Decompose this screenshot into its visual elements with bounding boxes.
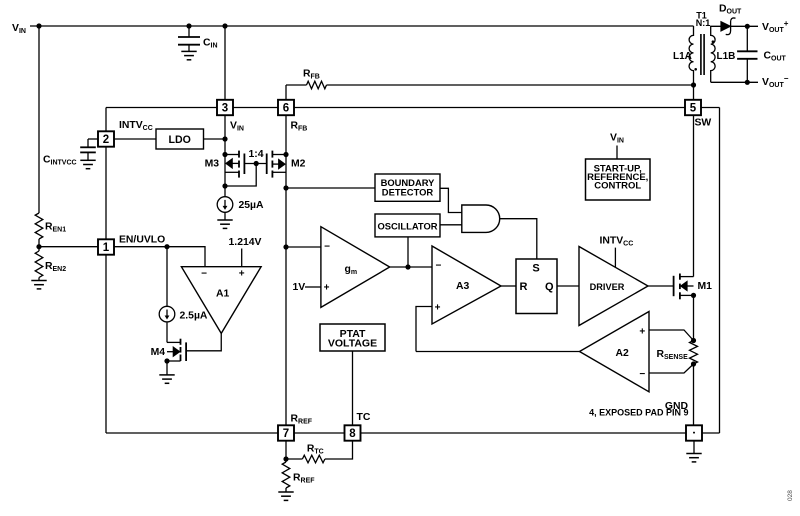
wire INTVCC into driver bbox=[614, 248, 616, 268]
svg-text:−: − bbox=[324, 241, 330, 252]
IC boundary right edge bbox=[719, 108, 721, 434]
junction VOUT+ bbox=[745, 24, 750, 29]
op-amp A3 bbox=[432, 246, 501, 324]
svg-text:M3: M3 bbox=[205, 159, 220, 170]
junction mirror gate tie bbox=[222, 183, 227, 188]
AND gate U1 bbox=[462, 205, 500, 232]
ground CINTVCC bbox=[80, 160, 95, 168]
svg-text:028: 028 bbox=[787, 490, 794, 501]
wire SW rail pin5 to M1 bbox=[693, 115, 695, 276]
ground REN2 bbox=[31, 281, 46, 289]
wire pin3 from top rail bbox=[224, 26, 226, 100]
junction 2.5uA tap bbox=[164, 244, 169, 249]
wire oscillator to AND gate bbox=[440, 224, 462, 226]
junction gm output bbox=[405, 264, 410, 269]
junction top-rail pin3 bbox=[222, 23, 227, 28]
junction top-rail left bbox=[36, 23, 41, 28]
svg-text:A2: A2 bbox=[616, 348, 630, 359]
svg-text:TC: TC bbox=[357, 412, 371, 423]
op-amp A1 bbox=[181, 267, 261, 334]
wire M2 rail pin6 to pin7 bbox=[285, 115, 287, 425]
wire mirror gates tie 1:4 bbox=[244, 163, 266, 165]
pin 4 GND exposed pad bbox=[686, 425, 702, 440]
svg-text:8: 8 bbox=[349, 428, 356, 440]
svg-text:4, EXPOSED PAD PIN 9: 4, EXPOSED PAD PIN 9 bbox=[589, 408, 688, 418]
wire pin2 to LDO bbox=[114, 138, 156, 140]
wire left VIN rail down to REN1 bbox=[38, 26, 40, 213]
IC boundary top edge bbox=[106, 107, 217, 109]
wire A2 inverting input to RSENSE bottom bbox=[649, 364, 694, 373]
svg-text:2: 2 bbox=[103, 134, 109, 146]
junction M2 drain bbox=[283, 152, 288, 157]
junction boundary detector tap bbox=[283, 185, 288, 190]
resistor RTC bbox=[286, 458, 302, 460]
wire AND output to latch S input bbox=[500, 219, 537, 259]
transistor M1 bbox=[680, 276, 694, 278]
capacitor COUT bbox=[746, 26, 748, 51]
junction RSENSE bottom bbox=[691, 361, 696, 366]
wire driver output to M1 gate bbox=[648, 285, 674, 287]
svg-text:−: − bbox=[201, 268, 207, 279]
svg-text:EN/UVLO: EN/UVLO bbox=[119, 235, 165, 246]
wire latch Q to driver bbox=[557, 285, 579, 287]
wire gm inverting input bbox=[286, 246, 321, 248]
box PTAT VOLTAGE bbox=[320, 324, 385, 351]
svg-text:6: 6 bbox=[283, 103, 289, 115]
wire 1V to gm noninverting input bbox=[305, 286, 321, 288]
resistor REN1 bbox=[35, 213, 43, 239]
wire M2 tap to boundary detector bbox=[286, 187, 375, 189]
wire pin1 to A1 inverting input bbox=[114, 247, 205, 267]
svg-text:S: S bbox=[532, 263, 539, 275]
capacitor CINTVCC bbox=[88, 138, 98, 140]
current source 2.5uA bbox=[166, 247, 168, 307]
junction M3 drain bbox=[222, 152, 227, 157]
svg-text:VOLTAGE: VOLTAGE bbox=[328, 338, 377, 350]
wire A3 noninverting input from A2 bbox=[416, 307, 432, 352]
wire gm output to A3 bbox=[390, 266, 432, 268]
svg-text:LDO: LDO bbox=[169, 134, 191, 146]
resistor RREF bbox=[282, 462, 290, 488]
buffer DRIVER bbox=[579, 247, 648, 326]
svg-text:25µA: 25µA bbox=[239, 200, 265, 211]
svg-text:R: R bbox=[520, 281, 528, 293]
wire RFB to SW node bbox=[327, 84, 694, 86]
wire M1 source to RSENSE bbox=[693, 295, 695, 340]
junction EN divider bbox=[36, 244, 41, 249]
wire VIN to startup box bbox=[616, 146, 618, 160]
svg-text:M2: M2 bbox=[291, 159, 306, 170]
IC boundary bottom edge bbox=[702, 432, 720, 434]
svg-text:1:4: 1:4 bbox=[248, 149, 263, 160]
pin 6 RFB bbox=[278, 100, 294, 115]
svg-text:N:1: N:1 bbox=[696, 18, 711, 28]
svg-text:Q: Q bbox=[545, 281, 554, 293]
junction SW node top bbox=[691, 82, 696, 87]
box LDO bbox=[156, 129, 204, 149]
svg-text:1.214V: 1.214V bbox=[229, 237, 262, 248]
capacitor CIN bbox=[188, 26, 190, 37]
transistor M2 bbox=[272, 154, 286, 156]
svg-text:+: + bbox=[639, 326, 645, 337]
junction M4 source bbox=[164, 358, 169, 363]
wire oscillator to gm output node bbox=[407, 237, 409, 267]
svg-text:+: + bbox=[324, 282, 330, 293]
diode DOUT schottky bbox=[721, 22, 730, 31]
inductor L1A primary winding bbox=[689, 26, 693, 85]
svg-text:A1: A1 bbox=[216, 289, 230, 300]
transformer core bbox=[700, 34, 702, 75]
svg-text:DRIVER: DRIVER bbox=[590, 282, 625, 292]
box OSCILLATOR bbox=[375, 214, 440, 237]
resistor RSENSE bbox=[690, 341, 698, 365]
svg-text:L1B: L1B bbox=[717, 51, 736, 62]
phase dot secondary bbox=[712, 40, 715, 43]
junction RSENSE top bbox=[691, 338, 696, 343]
svg-text:M4: M4 bbox=[151, 347, 166, 358]
op-amp A2 bbox=[580, 312, 650, 392]
svg-text:+: + bbox=[435, 303, 441, 314]
pin 8 TC bbox=[345, 425, 361, 440]
IC boundary left edge bbox=[105, 255, 107, 434]
op-amp gm error amplifier bbox=[321, 227, 390, 308]
ground M4 bbox=[166, 361, 168, 375]
svg-text:CONTROL: CONTROL bbox=[594, 180, 641, 191]
wire RSENSE to GND pin bbox=[693, 364, 695, 425]
junction top-rail CIN bbox=[186, 23, 191, 28]
wire RTC to pin8 bbox=[325, 441, 353, 459]
inductor L1B secondary winding bbox=[711, 26, 721, 82]
wire pin7 down to RREF node bbox=[285, 441, 287, 462]
wire diode to VOUT+ bbox=[731, 25, 758, 27]
ground GND pin bbox=[693, 441, 695, 454]
transistor M3 bbox=[225, 154, 239, 156]
box BOUNDARY DETECTOR bbox=[375, 174, 440, 201]
ground CIN bbox=[181, 51, 196, 59]
svg-text:−: − bbox=[639, 369, 645, 380]
svg-text:A3: A3 bbox=[456, 281, 470, 292]
svg-text:SW: SW bbox=[695, 117, 712, 128]
pin 1 EN/UVLO bbox=[98, 239, 114, 254]
wire VIN internal rail pin3 down bbox=[224, 115, 226, 197]
junction LDO out bbox=[222, 136, 227, 141]
svg-text:5: 5 bbox=[690, 103, 697, 115]
svg-text:1: 1 bbox=[103, 242, 110, 254]
svg-text:1V: 1V bbox=[293, 282, 306, 293]
resistor RFB bbox=[285, 85, 287, 100]
wire 1.214V to A1 noninverting input bbox=[241, 249, 243, 267]
wire boundary detector to AND gate bbox=[440, 188, 462, 212]
pin 5 SW bbox=[685, 100, 701, 115]
svg-text:DETECTOR: DETECTOR bbox=[382, 187, 434, 198]
current source 25uA bbox=[217, 197, 233, 213]
ground 25uA bbox=[224, 212, 226, 220]
junction gm input tap bbox=[283, 244, 288, 249]
svg-text:L1A: L1A bbox=[673, 51, 692, 62]
junction RREF node bbox=[283, 456, 288, 461]
svg-text:OSCILLATOR: OSCILLATOR bbox=[377, 220, 437, 231]
svg-text:−: − bbox=[435, 261, 441, 272]
wire A2 output to A3 input bbox=[416, 351, 580, 353]
svg-text:3: 3 bbox=[222, 103, 228, 115]
ground RREF bbox=[285, 488, 287, 492]
junction VOUT- bbox=[745, 80, 750, 85]
latch SR flip-flop bbox=[516, 259, 557, 314]
pin 2 INTVCC bbox=[98, 131, 114, 146]
pin 7 RREF bbox=[278, 425, 294, 440]
wire A1 output to M4 gate bbox=[186, 333, 221, 350]
resistor REN2 bbox=[35, 251, 43, 278]
pin 3 VIN bbox=[217, 100, 233, 115]
wire divider to pin1 bbox=[39, 246, 98, 248]
svg-text:2.5µA: 2.5µA bbox=[180, 310, 208, 321]
svg-text:+: + bbox=[239, 268, 245, 279]
wire A3 output to latch R input bbox=[501, 285, 516, 287]
box START-UP REFERENCE CONTROL bbox=[586, 159, 651, 200]
wire gate tie to diode connection bbox=[225, 164, 256, 187]
wire PTAT to pin8 TC bbox=[352, 351, 354, 425]
wire VIN top rail bbox=[30, 25, 694, 27]
wire LDO output to VIN internal rail bbox=[204, 138, 226, 140]
junction M1 source bbox=[691, 293, 696, 298]
svg-text:M1: M1 bbox=[698, 281, 713, 292]
wire A2 noninverting input to RSENSE top bbox=[649, 330, 694, 341]
svg-text:7: 7 bbox=[283, 428, 289, 440]
phase dot primary bbox=[694, 68, 697, 71]
transistor M4 bbox=[167, 341, 181, 343]
wire secondary bottom to VOUT- bbox=[711, 81, 758, 83]
